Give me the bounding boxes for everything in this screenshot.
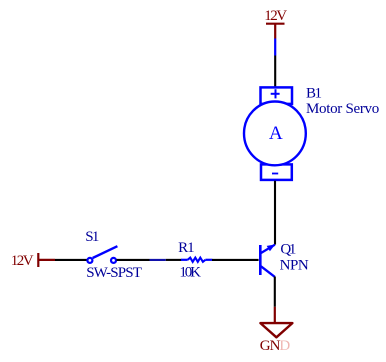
svg-text:NPN: NPN <box>280 257 309 273</box>
wire mid node to resistor <box>166 259 182 261</box>
ground symbol GND <box>260 307 293 354</box>
transistor Q1 base bar <box>259 245 262 275</box>
wire emitter to ground <box>274 277 276 307</box>
label R1 <box>178 240 194 256</box>
transistor Q1 emitter line <box>261 266 275 277</box>
label 10K <box>179 265 201 281</box>
power port 12V left <box>11 253 55 269</box>
svg-text:B1: B1 <box>306 86 322 102</box>
svg-text:12V: 12V <box>264 8 287 24</box>
minus terminal mark <box>272 173 278 175</box>
motor servo B1 body <box>244 87 306 179</box>
svg-text:Q1: Q1 <box>280 241 296 257</box>
label S1 <box>85 229 99 245</box>
resistor R1 <box>181 258 212 262</box>
svg-text:GND: GND <box>260 338 291 354</box>
svg-text:S1: S1 <box>85 229 99 245</box>
label B1 <box>306 86 322 102</box>
svg-text:Motor Servo: Motor Servo <box>306 101 379 117</box>
motor letter A <box>269 123 283 144</box>
label Q1 <box>280 241 296 257</box>
wire switch to mid node <box>117 259 150 261</box>
label NPN <box>280 257 309 273</box>
svg-text:SW-SPST: SW-SPST <box>86 265 142 281</box>
pin of motor B1 (blue segment) <box>274 39 276 56</box>
label Motor Servo <box>306 101 379 117</box>
transistor Q1 collector line with arrow <box>261 245 275 254</box>
svg-text:R1: R1 <box>178 240 194 256</box>
plus terminal mark <box>271 89 280 98</box>
switch S1 <box>87 246 117 263</box>
label SW-SPST <box>86 265 142 281</box>
wire 12V to switch <box>55 259 87 261</box>
power port 12V top <box>264 8 287 39</box>
wire 12V to motor <box>274 56 276 88</box>
svg-text:A: A <box>269 123 283 144</box>
blue wire segment (pin) <box>150 259 166 261</box>
wire motor to transistor collector <box>274 181 276 245</box>
svg-text:10K: 10K <box>179 265 201 281</box>
wire resistor to base <box>212 259 259 261</box>
svg-text:12V: 12V <box>11 253 34 269</box>
